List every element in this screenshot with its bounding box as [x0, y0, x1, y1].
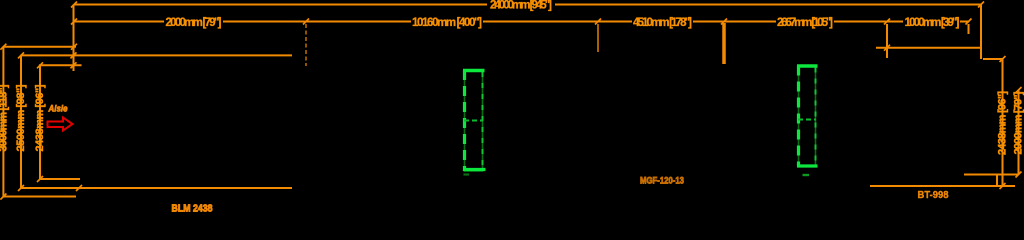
tick left v1 bottom	[0, 194, 6, 200]
right elbow top A	[983, 58, 1003, 60]
extension tick x887	[886, 24, 888, 58]
green truss right	[797, 66, 818, 176]
left elbow return 3	[40, 178, 80, 180]
truss left bottom bar	[463, 168, 486, 171]
extension stub x968	[968, 24, 970, 34]
svg-text:2000mm [79"]: 2000mm [79"]	[166, 17, 222, 29]
svg-text:1000mm [39"]: 1000mm [39"]	[905, 17, 960, 29]
tick right B bottom	[1016, 172, 1022, 178]
tick left v1 top	[0, 44, 6, 50]
left vertical dimension 1	[2, 47, 4, 197]
svg-text:10160mm [400"]: 10160mm [400"]	[412, 17, 482, 29]
svg-text:2500mm [98"]: 2500mm [98"]	[15, 84, 27, 151]
tick row2 x74	[71, 19, 77, 25]
extension tick x598	[597, 24, 599, 52]
tick row2 x969	[966, 19, 972, 25]
svg-text:4510mm [178"]: 4510mm [178"]	[633, 17, 692, 29]
truss right mid rung	[798, 119, 816, 121]
extension line right x981	[980, 5, 982, 60]
tick x74 on h3	[71, 62, 77, 68]
truss right top bar	[797, 64, 818, 67]
left vertical dimension 2	[20, 55, 22, 188]
svg-text:2438mm [96"]: 2438mm [96"]	[34, 84, 46, 151]
tick left v3 bottom	[37, 176, 43, 182]
right vertical dimension A	[1002, 59, 1004, 186]
green truss left	[463, 70, 486, 175]
red aisle arrow	[48, 118, 73, 131]
tick row2 x724	[721, 19, 727, 25]
tick x74 on h1	[71, 44, 77, 50]
truss left top bar	[463, 69, 485, 72]
right horizontal y174	[964, 174, 1019, 176]
dimension texts row	[166, 0, 960, 29]
part labels	[48, 104, 949, 215]
tick row2 x887	[884, 19, 890, 25]
tick right A bottom	[1000, 183, 1006, 189]
right wall line top	[876, 47, 981, 49]
left vertical dimension 3	[39, 65, 41, 179]
tick row2 x306	[303, 19, 309, 25]
svg-text:2000mm [79"]: 2000mm [79"]	[1013, 91, 1024, 154]
tick x79 on elbow2	[76, 185, 82, 191]
left elbow return 1	[3, 196, 76, 198]
truss right bottom bar	[797, 164, 818, 167]
tick left v3 top	[37, 62, 43, 68]
dimension line second row	[74, 21, 969, 23]
left leader horizontal 2	[21, 54, 293, 56]
tick top-right	[978, 2, 984, 8]
svg-text:2667mm [105"]: 2667mm [105"]	[777, 17, 833, 29]
extension tick x306	[305, 24, 307, 66]
tick x887 on wall	[884, 45, 890, 51]
svg-text:24000mm [945"]: 24000mm [945"]	[490, 0, 552, 12]
truss right lower stub	[803, 174, 810, 176]
rotated dimension texts	[0, 84, 1024, 155]
left leader horizontal 3	[39, 64, 82, 66]
bottom right wall	[870, 185, 1015, 187]
right connector x997	[996, 175, 998, 187]
svg-text:BT-998: BT-998	[918, 190, 949, 201]
tick left v2 top	[18, 52, 24, 58]
label masks	[164, 0, 960, 27]
extension tick x724 thick	[722, 23, 726, 64]
left leader horizontal 1	[3, 46, 76, 48]
tick row2 x598	[595, 19, 601, 25]
tick x74 on h2	[71, 52, 77, 58]
truss left mid rung	[464, 120, 483, 122]
svg-text:Aisle: Aisle	[48, 104, 68, 115]
dimension line overall top	[74, 4, 981, 6]
left elbow return 2	[21, 187, 292, 189]
tick top-left	[71, 2, 77, 8]
svg-text:2438mm [96"]: 2438mm [96"]	[997, 91, 1009, 155]
svg-text:MGF-120-13: MGF-120-13	[640, 176, 684, 187]
tick right B top	[1016, 87, 1022, 93]
svg-text:BLM 2438: BLM 2438	[172, 203, 213, 215]
tick left v2 bottom	[18, 185, 24, 191]
truss left lower stub	[464, 173, 470, 175]
right vertical dimension B	[1018, 90, 1020, 175]
svg-text:3000mm [118"]: 3000mm [118"]	[0, 84, 10, 151]
tick right A top	[1000, 56, 1006, 62]
extension line left x74	[73, 5, 75, 72]
